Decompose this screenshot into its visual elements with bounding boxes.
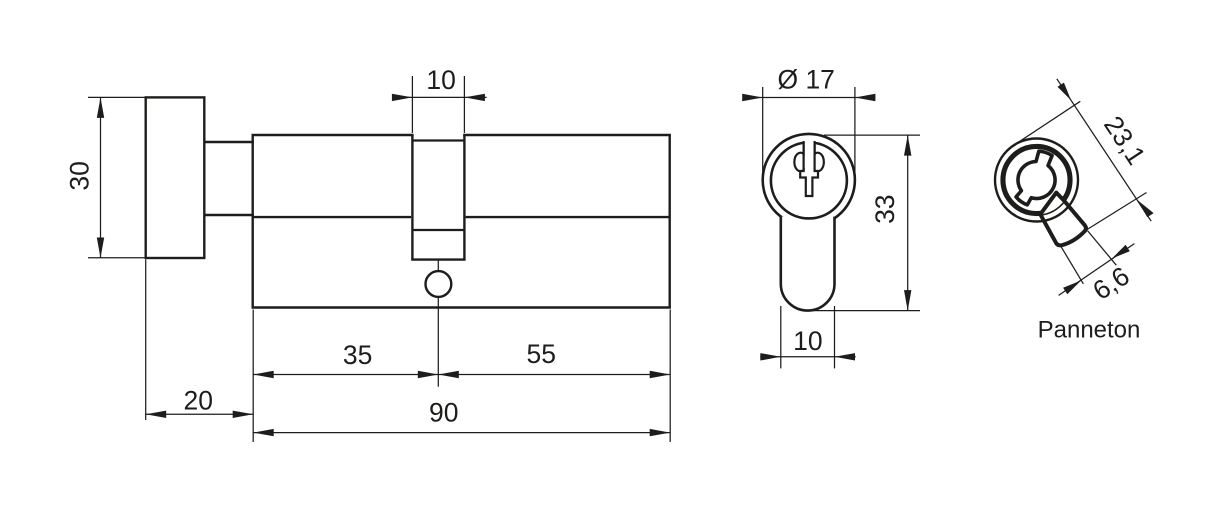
arrow 35 right (bowtie left half) xyxy=(418,371,439,378)
ext line notch left (dim 10) xyxy=(411,76,413,133)
ext line knob left bottom (dim 20) xyxy=(145,260,147,421)
cam outer thin circle xyxy=(995,139,1078,222)
svg-text:Panneton: Panneton xyxy=(1038,317,1141,344)
ext line notch right (dim 10) xyxy=(463,76,465,133)
ext line knob top (dim 30) xyxy=(88,96,145,98)
thin construction / extension lines, left view xyxy=(88,76,670,442)
dim line 6,6 xyxy=(1059,244,1135,296)
ext line tangent top-left (dim 23,1) xyxy=(1017,101,1080,143)
face circle outer xyxy=(763,134,855,226)
ext line through lobe tip (dim 23,1) xyxy=(1087,193,1146,230)
face body lower part (white fill covers circle bottom) xyxy=(781,217,835,311)
cylinder body mid parting line left of notch xyxy=(253,216,412,218)
ext line lobe upper-right (dim 6,6) xyxy=(1088,231,1117,266)
arrow 90 right xyxy=(650,429,671,436)
thin lines middle view xyxy=(743,87,920,368)
cam slot bottom line xyxy=(411,258,465,260)
dim line 33 xyxy=(907,135,909,311)
cylinder body bottom line xyxy=(252,306,671,308)
cylinder body left edge xyxy=(251,135,253,308)
cam lobe (tab) xyxy=(1040,193,1086,246)
arrow 20 left xyxy=(146,411,167,418)
knob (thumbturn) rectangle xyxy=(146,97,205,258)
svg-text:35: 35 xyxy=(343,340,372,370)
arrow 17 left (outside) xyxy=(742,94,763,101)
arrow 17 right (outside) xyxy=(855,94,876,101)
svg-text:33: 33 xyxy=(870,194,900,223)
centerline above screw circle xyxy=(437,260,439,271)
arrow 30 bottom xyxy=(97,238,104,259)
arrowheads right view xyxy=(1058,83,1154,295)
arrow 90 left xyxy=(253,429,274,436)
arrow 35 left xyxy=(253,371,274,378)
cam ring thick circle xyxy=(1003,147,1069,213)
ext line knob bottom (dim 30) xyxy=(88,257,145,259)
arrow 10 left (outside) xyxy=(392,94,413,101)
cylinder body mid parting line right of notch xyxy=(466,216,670,218)
cam slot right vertical xyxy=(463,135,465,260)
arrowheads left view xyxy=(97,94,670,437)
svg-text:6,6: 6,6 xyxy=(1087,261,1134,306)
arrow 23,1 top (outside) xyxy=(1058,83,1072,101)
ext line lobe lower-left (dim 6,6) xyxy=(1061,246,1084,284)
svg-text:90: 90 xyxy=(429,397,458,427)
dim line 35 and 55 xyxy=(253,374,670,376)
cylinder body top line right of notch xyxy=(463,134,671,136)
svg-text:Ø 17: Ø 17 xyxy=(777,64,834,94)
dim line 10 horizontal xyxy=(392,96,487,98)
arrow 10 bottom right (outside) xyxy=(835,353,856,360)
svg-text:20: 20 xyxy=(184,386,213,416)
dim line 30 vertical xyxy=(100,97,102,258)
thin lines right view dims xyxy=(1017,79,1151,296)
keyway channel wall right (through lobes) xyxy=(813,142,815,171)
svg-text:10: 10 xyxy=(426,65,455,95)
arrow 33 top xyxy=(904,135,911,156)
arrow 10 bottom left (outside) xyxy=(760,353,781,360)
ext line body left bottom xyxy=(252,310,254,443)
svg-text:23,1: 23,1 xyxy=(1098,111,1151,171)
arrow 30 top xyxy=(97,97,104,118)
dim line 17 xyxy=(743,97,875,99)
cam slot left vertical xyxy=(411,135,413,260)
arrow 55 right xyxy=(650,371,671,378)
arrow 23,1 bottom (outside) xyxy=(1137,200,1154,218)
ext line face right (dim 17) xyxy=(854,87,856,180)
arrow 6,6 upper-right (outside) xyxy=(1112,245,1130,259)
centerline below screw circle xyxy=(437,297,439,387)
stem bottom line xyxy=(204,214,254,216)
ext line face bottom (dim 33) xyxy=(809,310,920,312)
ext line body left (dim 10) xyxy=(780,306,782,368)
cam slot inner rung line xyxy=(412,229,464,231)
arrow 6,6 lower-left (outside) xyxy=(1063,281,1081,295)
arrowheads middle view xyxy=(742,94,911,361)
face inner circle xyxy=(771,142,847,218)
svg-text:30: 30 xyxy=(65,161,95,190)
ext line face top (dim 33) xyxy=(824,134,920,136)
arrow 33 bottom xyxy=(904,290,911,311)
arrow 10 right (outside) xyxy=(464,94,485,101)
ext line body right (dim 10) xyxy=(834,306,836,368)
cam silhouette with tabs xyxy=(1002,146,1069,210)
keyway channel wall left (through lobes) xyxy=(802,142,804,171)
fixing screw hole circle xyxy=(426,271,452,297)
arrow 20 right xyxy=(233,411,254,418)
ext line body right bottom xyxy=(669,310,671,443)
dim line 10 bottom xyxy=(760,356,855,358)
cam ring outer edge thin circle xyxy=(1001,145,1072,216)
arrow 55 left (bowtie right half) xyxy=(438,371,459,378)
stem top line xyxy=(204,141,254,143)
cylinder body right edge xyxy=(669,135,671,308)
dim line 20 xyxy=(146,413,254,415)
dim line 90 xyxy=(253,432,670,434)
svg-text:55: 55 xyxy=(527,339,556,369)
ext line face left (dim 17) xyxy=(762,87,764,180)
keyway profile xyxy=(794,141,823,196)
cylinder body top line left of notch xyxy=(252,134,414,136)
svg-text:10: 10 xyxy=(793,326,822,356)
dim line 23,1 xyxy=(1057,79,1151,221)
cam slot recessed top line xyxy=(412,139,464,141)
